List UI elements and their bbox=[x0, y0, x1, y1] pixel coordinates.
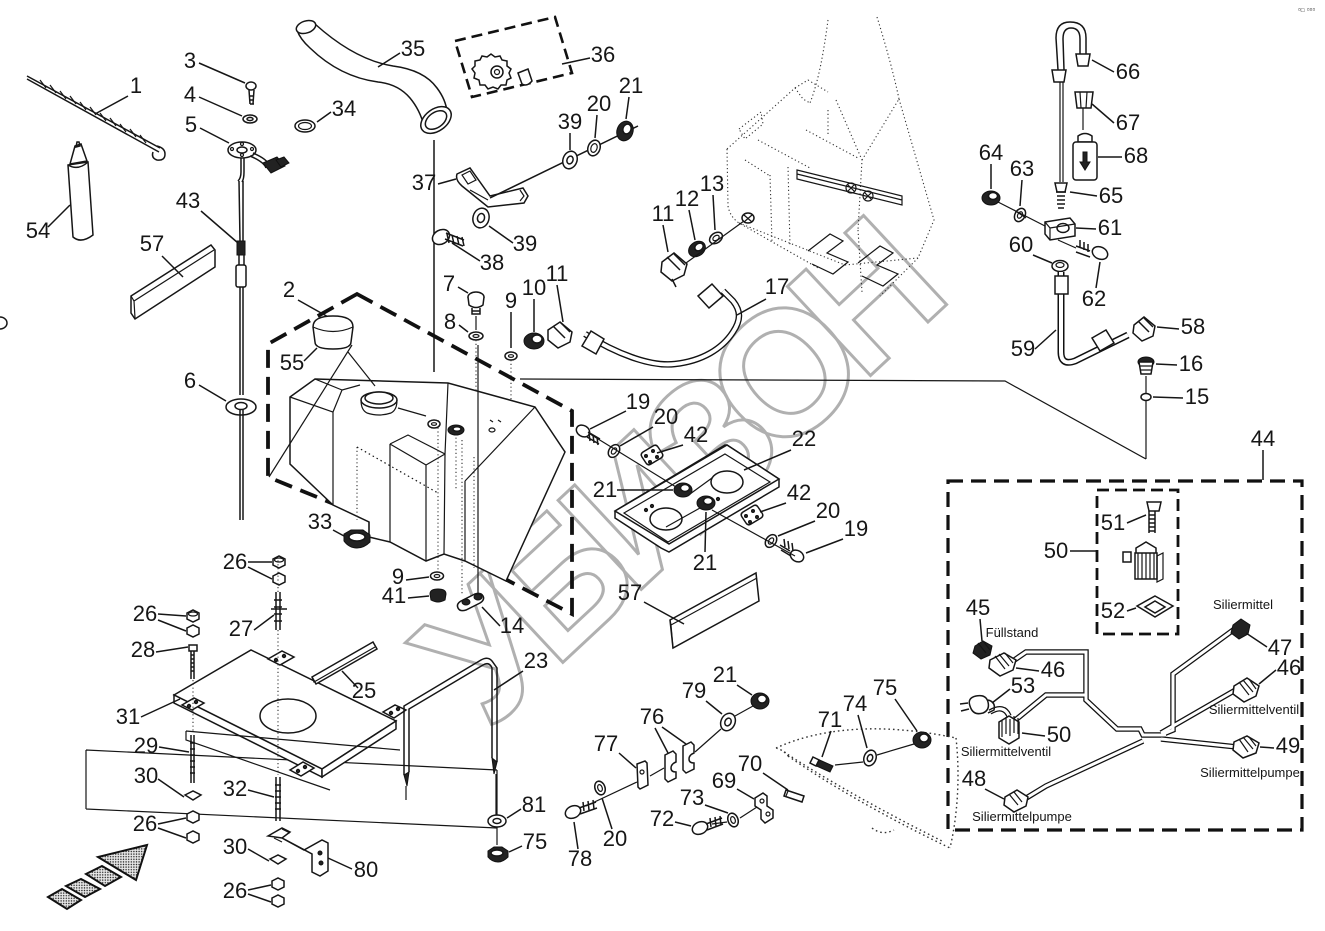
svg-text:50: 50 bbox=[1044, 538, 1068, 563]
svg-text:68: 68 bbox=[1124, 143, 1148, 168]
svg-text:15: 15 bbox=[1185, 384, 1209, 409]
label 50 inner bbox=[1044, 538, 1096, 563]
label 57 left bbox=[140, 231, 183, 277]
svg-text:62: 62 bbox=[1082, 286, 1106, 311]
bracket 37 bbox=[457, 168, 528, 207]
svg-text:19: 19 bbox=[844, 516, 868, 541]
drain fittings on tank top bbox=[428, 420, 501, 435]
label 62 bbox=[1082, 262, 1106, 311]
ring 20 top bbox=[586, 138, 603, 157]
label 20 top bbox=[587, 91, 611, 138]
dashed box 36 bbox=[455, 17, 572, 97]
pin 70 bbox=[784, 790, 804, 802]
svg-text:54: 54 bbox=[26, 218, 50, 243]
label 77 bbox=[594, 731, 636, 768]
label 7 bbox=[443, 271, 468, 296]
svg-text:17: 17 bbox=[765, 274, 789, 299]
svg-text:41: 41 bbox=[382, 583, 406, 608]
svg-text:57: 57 bbox=[618, 580, 642, 605]
machine body phantom outline bbox=[727, 17, 934, 296]
svg-text:8: 8 bbox=[444, 309, 456, 334]
washer 39 upper bbox=[560, 149, 579, 171]
square washer 52 bbox=[1137, 596, 1173, 617]
bolt 78 bbox=[563, 800, 597, 821]
svg-text:52: 52 bbox=[1101, 598, 1125, 623]
svg-text:48: 48 bbox=[962, 766, 986, 791]
svg-text:80: 80 bbox=[354, 857, 378, 882]
svg-text:72: 72 bbox=[650, 806, 674, 831]
label 17 bbox=[737, 274, 789, 315]
nut 21 top bbox=[614, 119, 636, 143]
svg-text:▫□ ▫▫▫: ▫□ ▫▫▫ bbox=[1298, 5, 1315, 14]
label 57 right bbox=[618, 580, 684, 624]
washer 20 bottom bbox=[593, 780, 607, 797]
rod 43 sensor bbox=[236, 158, 246, 395]
label 38 bbox=[452, 243, 504, 275]
label 49 bbox=[1260, 733, 1300, 758]
part 54 cartridge bbox=[68, 142, 93, 240]
label 74 bbox=[843, 691, 867, 748]
assembly line 21-19 lower bbox=[666, 508, 795, 556]
label 33 bbox=[308, 509, 344, 536]
label 23 bbox=[494, 648, 548, 690]
label 41 bbox=[382, 583, 429, 608]
washer 63 bbox=[1012, 206, 1028, 223]
svg-text:5: 5 bbox=[185, 112, 197, 137]
svg-text:46: 46 bbox=[1277, 655, 1301, 680]
label 46 right bbox=[1259, 655, 1301, 684]
connector 46 left bbox=[989, 653, 1016, 676]
label 42 lower bbox=[760, 480, 811, 512]
label 73 bbox=[680, 785, 728, 813]
assembly line 72-70 bbox=[712, 807, 757, 824]
svg-text:64: 64 bbox=[979, 140, 1003, 165]
svg-text:1: 1 bbox=[130, 73, 142, 98]
label 46 left bbox=[1016, 657, 1065, 682]
bracket 61 bbox=[1045, 218, 1075, 240]
arrow symbol bbox=[48, 845, 147, 909]
elbow 11 left bbox=[548, 322, 572, 348]
connector 48 bbox=[1004, 790, 1028, 812]
svg-text:71: 71 bbox=[818, 707, 842, 732]
bolt 19 upper bbox=[574, 423, 600, 445]
plug 53 bbox=[960, 696, 994, 714]
label 75 frame bbox=[509, 829, 547, 854]
label 20 bottom bbox=[602, 798, 627, 851]
svg-text:Siliermittelventil: Siliermittelventil bbox=[961, 744, 1051, 759]
svg-text:Siliermittelpumpe: Siliermittelpumpe bbox=[972, 809, 1072, 824]
label 13 top bbox=[700, 171, 724, 230]
bolt 19 lower bbox=[780, 539, 806, 564]
label 1 bbox=[95, 73, 142, 114]
label 53 bbox=[992, 673, 1035, 703]
washer 8 bbox=[469, 332, 483, 425]
label 79 bbox=[682, 678, 722, 714]
label 36 bbox=[562, 42, 615, 67]
filler tube 35 bbox=[295, 18, 457, 139]
machine hole bbox=[742, 213, 754, 223]
bolt 7 bbox=[468, 292, 484, 330]
rod 23 bbox=[404, 658, 497, 815]
washer 79 bbox=[718, 711, 738, 733]
svg-text:61: 61 bbox=[1098, 215, 1122, 240]
dotted cover panel bbox=[776, 729, 958, 848]
svg-text:21: 21 bbox=[713, 662, 737, 687]
label 9 bottom bbox=[392, 564, 429, 589]
svg-text:38: 38 bbox=[480, 250, 504, 275]
svg-text:20: 20 bbox=[603, 826, 627, 851]
svg-text:43: 43 bbox=[176, 188, 200, 213]
label 81 bbox=[507, 792, 546, 818]
svg-text:4: 4 bbox=[184, 82, 196, 107]
inner dashed box 50-52 bbox=[1097, 490, 1178, 634]
svg-text:23: 23 bbox=[524, 648, 548, 673]
label 59 bbox=[1011, 330, 1056, 361]
label 14 bbox=[482, 607, 524, 638]
filter 68 bbox=[1073, 134, 1097, 181]
label 55 bbox=[280, 348, 317, 375]
label 78 bbox=[568, 822, 592, 871]
label 54 bbox=[26, 205, 70, 243]
tank filler neck bbox=[361, 392, 397, 415]
label 11 top bbox=[652, 201, 675, 252]
label 66 bbox=[1092, 59, 1140, 84]
washer 9 bottom bbox=[431, 572, 444, 580]
plate 42 upper bbox=[641, 445, 663, 465]
svg-text:22: 22 bbox=[792, 426, 816, 451]
center rod stack 26/27/32/30/26 bbox=[270, 556, 287, 907]
plate 57 right bbox=[670, 573, 759, 648]
fitting 10 bbox=[524, 333, 544, 349]
nut 75 frame bbox=[488, 847, 508, 862]
part 1 pull rod bbox=[27, 76, 165, 160]
svg-text:55: 55 bbox=[280, 350, 304, 375]
svg-text:30: 30 bbox=[223, 834, 247, 859]
washer 39 lower bbox=[471, 206, 492, 229]
label 4 bbox=[184, 82, 242, 116]
svg-text:66: 66 bbox=[1116, 59, 1140, 84]
assembly line 11-13 to machine bbox=[686, 221, 744, 263]
tank body bbox=[290, 345, 565, 594]
svg-text:42: 42 bbox=[787, 480, 811, 505]
washer 4 bbox=[243, 115, 257, 123]
page-edge ring bbox=[0, 317, 7, 329]
washer 20 upper bbox=[606, 442, 622, 459]
label 68 bbox=[1098, 143, 1148, 168]
svg-text:39: 39 bbox=[558, 109, 582, 134]
svg-text:44: 44 bbox=[1251, 426, 1275, 451]
svg-text:26: 26 bbox=[133, 811, 157, 836]
label 70 bbox=[738, 751, 788, 790]
cap nut 41 bbox=[430, 589, 446, 602]
nut 12 top bbox=[686, 238, 709, 260]
plate 42 lower bbox=[741, 505, 763, 525]
svg-text:21: 21 bbox=[693, 550, 717, 575]
label 63 bbox=[1010, 156, 1034, 206]
washer 15 bbox=[1141, 376, 1151, 459]
label 50 harness bbox=[1022, 722, 1071, 747]
cap 55 bbox=[269, 316, 375, 477]
svg-text:79: 79 bbox=[682, 678, 706, 703]
svg-text:34: 34 bbox=[332, 96, 356, 121]
label 42 upper bbox=[657, 422, 708, 453]
svg-text:67: 67 bbox=[1116, 110, 1140, 135]
svg-text:16: 16 bbox=[1179, 351, 1203, 376]
svg-text:7: 7 bbox=[443, 271, 455, 296]
label 8 bbox=[444, 309, 468, 334]
label 16 bbox=[1156, 351, 1203, 376]
plate 77 bbox=[637, 761, 648, 789]
connector 45 bbox=[973, 641, 992, 659]
label 39 upper bbox=[558, 109, 582, 150]
hose 59 bbox=[1055, 272, 1128, 362]
label 71 bbox=[818, 707, 842, 757]
bolt 51 bbox=[1147, 502, 1161, 533]
svg-text:28: 28 bbox=[131, 637, 155, 662]
labels 26/27/32/30/26 center bbox=[223, 549, 272, 579]
svg-text:39: 39 bbox=[513, 231, 537, 256]
label 21 top bbox=[619, 73, 643, 119]
svg-text:63: 63 bbox=[1010, 156, 1034, 181]
dashed box 2 (tank) bbox=[268, 294, 572, 614]
washer 73 bbox=[726, 812, 740, 829]
strip 25 bbox=[312, 642, 377, 684]
label 12 top bbox=[675, 186, 699, 240]
bolt 62 bbox=[1076, 240, 1110, 262]
pointer line to box 44 bbox=[520, 379, 1146, 459]
svg-text:74: 74 bbox=[843, 691, 867, 716]
label 43 bbox=[176, 188, 238, 243]
nut 60 bbox=[1052, 261, 1068, 272]
svg-text:14: 14 bbox=[500, 613, 524, 638]
elbow 11 top bbox=[661, 253, 687, 287]
svg-text:12: 12 bbox=[675, 186, 699, 211]
svg-text:26: 26 bbox=[223, 878, 247, 903]
svg-text:73: 73 bbox=[680, 785, 704, 810]
assembly line 61-62 bbox=[1058, 240, 1076, 248]
svg-text:20: 20 bbox=[816, 498, 840, 523]
washer 74 bbox=[862, 748, 879, 767]
svg-text:21: 21 bbox=[619, 73, 643, 98]
svg-text:25: 25 bbox=[352, 678, 376, 703]
machine bracket strip bbox=[797, 170, 902, 205]
watermark bbox=[379, 187, 972, 759]
label 48 bbox=[962, 766, 1004, 799]
label 44 bbox=[1251, 426, 1275, 480]
svg-text:75: 75 bbox=[873, 675, 897, 700]
connector 47 bbox=[1231, 619, 1250, 639]
washer 13 top bbox=[707, 230, 724, 246]
ring 34 bbox=[295, 120, 315, 132]
label 21 lower bbox=[693, 512, 717, 575]
svg-text:Siliermittelventil: Siliermittelventil bbox=[1209, 702, 1299, 717]
label 75 bottom bbox=[873, 675, 917, 731]
hose 17 bbox=[582, 284, 739, 364]
screw 65 bbox=[1055, 183, 1067, 208]
svg-text:65: 65 bbox=[1099, 183, 1123, 208]
label 80 bbox=[328, 857, 378, 882]
screw 3 bbox=[246, 82, 256, 104]
svg-text:11: 11 bbox=[546, 261, 569, 286]
svg-text:2: 2 bbox=[283, 277, 295, 302]
svg-text:26: 26 bbox=[223, 549, 247, 574]
svg-text:75: 75 bbox=[523, 829, 547, 854]
svg-text:11: 11 bbox=[652, 201, 675, 226]
label 11 left bbox=[546, 261, 569, 322]
U-tube 66 bbox=[1052, 22, 1090, 182]
washer 20 lower bbox=[763, 532, 779, 549]
fitting 16 bbox=[1138, 357, 1154, 374]
nut 21 mid-left bbox=[674, 483, 692, 497]
plate 14 bbox=[457, 593, 483, 610]
panel behind frame bbox=[86, 750, 497, 828]
clamp halves 76 bbox=[665, 742, 694, 782]
nut 21 bottom bbox=[751, 693, 769, 709]
bolt 38 bbox=[430, 226, 464, 247]
label 19 upper bbox=[590, 389, 650, 429]
svg-text:69: 69 bbox=[712, 768, 736, 793]
nut 21 lower bbox=[697, 496, 715, 510]
pin 71 bbox=[810, 757, 833, 772]
svg-text:53: 53 bbox=[1011, 673, 1035, 698]
washer 81 bbox=[488, 815, 506, 845]
svg-text:81: 81 bbox=[522, 792, 546, 817]
washer 9 mid bbox=[505, 352, 517, 430]
svg-text:21: 21 bbox=[593, 477, 617, 502]
svg-text:20: 20 bbox=[654, 404, 678, 429]
svg-text:3: 3 bbox=[184, 48, 196, 73]
label 76 bbox=[640, 704, 686, 753]
flange 5 bbox=[228, 142, 256, 158]
assembly line 71-75 bbox=[835, 744, 914, 765]
svg-text:10: 10 bbox=[522, 275, 546, 300]
connector 49 bbox=[1233, 736, 1259, 758]
dashed box 44 bbox=[948, 481, 1302, 830]
label 20 lower bbox=[778, 498, 840, 536]
svg-text:35: 35 bbox=[401, 36, 425, 61]
elbow 58 bbox=[1133, 317, 1155, 341]
leader line 35 to tank bbox=[433, 140, 435, 372]
bolt 72 bbox=[690, 816, 723, 837]
svg-text:Siliermittel: Siliermittel bbox=[1213, 597, 1273, 612]
harness wires bbox=[990, 628, 1239, 800]
svg-text:13: 13 bbox=[700, 171, 724, 196]
svg-text:36: 36 bbox=[591, 42, 615, 67]
cable and connector on 5 bbox=[250, 153, 289, 173]
bracket 69 bbox=[755, 793, 773, 823]
nut 67 bbox=[1075, 92, 1093, 130]
solenoid 50 harness bbox=[999, 716, 1019, 744]
label 19 lower bbox=[806, 516, 868, 553]
label 21 mid-left bbox=[593, 477, 673, 502]
label 3 bbox=[184, 48, 245, 83]
svg-text:59: 59 bbox=[1011, 336, 1035, 361]
label 31 bbox=[116, 699, 180, 729]
nut 64 bbox=[982, 191, 1000, 205]
svg-text:57: 57 bbox=[140, 231, 164, 256]
svg-text:6: 6 bbox=[184, 368, 196, 393]
label 58 bbox=[1157, 314, 1205, 339]
machine sheet flaps bbox=[808, 234, 898, 286]
label 65 bbox=[1070, 183, 1123, 208]
label 34 bbox=[317, 96, 356, 122]
svg-text:49: 49 bbox=[1276, 733, 1300, 758]
label 72 bbox=[650, 806, 691, 831]
label 47 bbox=[1246, 633, 1292, 660]
svg-text:Siliermittelpumpe: Siliermittelpumpe bbox=[1200, 765, 1300, 780]
svg-text:51: 51 bbox=[1101, 510, 1125, 535]
bracket 80 bbox=[268, 828, 328, 876]
assembly line 78-21 bbox=[586, 706, 753, 806]
assembly line 19-21 upper bbox=[590, 434, 712, 494]
svg-text:42: 42 bbox=[684, 422, 708, 447]
svg-text:60: 60 bbox=[1009, 232, 1033, 257]
svg-text:27: 27 bbox=[229, 616, 253, 641]
frame plate 31 bbox=[174, 650, 406, 790]
svg-text:70: 70 bbox=[738, 751, 762, 776]
label 10 bbox=[522, 275, 546, 332]
label 37 bbox=[412, 170, 456, 195]
svg-text:9: 9 bbox=[505, 288, 517, 313]
connector 46 right bbox=[1233, 678, 1259, 702]
svg-text:46: 46 bbox=[1041, 657, 1065, 682]
nut 75 bottom bbox=[913, 732, 931, 748]
svg-text:37: 37 bbox=[412, 170, 436, 195]
label 15 bbox=[1153, 384, 1209, 409]
plate 57 left bbox=[131, 245, 215, 319]
nut 33 bbox=[344, 530, 370, 548]
label 21 bottom bbox=[713, 662, 752, 695]
left rod stack 26/28/29/30/26 bbox=[185, 610, 201, 843]
tray 22 bbox=[615, 445, 779, 552]
label 45 bbox=[966, 595, 990, 641]
svg-text:20: 20 bbox=[587, 91, 611, 116]
svg-text:78: 78 bbox=[568, 846, 592, 871]
assembly line 64-61 bbox=[998, 202, 1045, 226]
label 5 bbox=[185, 112, 229, 143]
svg-text:76: 76 bbox=[640, 704, 664, 729]
label 52 bbox=[1101, 598, 1136, 623]
svg-text:29: 29 bbox=[134, 733, 158, 758]
label 51 bbox=[1101, 510, 1146, 535]
solenoid 50 inner bbox=[1123, 542, 1163, 582]
svg-text:26: 26 bbox=[133, 601, 157, 626]
label 61 bbox=[1076, 215, 1122, 240]
label 25 bbox=[342, 671, 376, 703]
label 64 bbox=[979, 140, 1003, 189]
svg-text:58: 58 bbox=[1181, 314, 1205, 339]
label 20 upper bbox=[620, 404, 678, 446]
svg-text:19: 19 bbox=[626, 389, 650, 414]
label 9 mid bbox=[505, 288, 517, 348]
svg-text:45: 45 bbox=[966, 595, 990, 620]
labels 26/28/29/30/26 left bbox=[133, 601, 186, 631]
svg-text:33: 33 bbox=[308, 509, 332, 534]
svg-text:32: 32 bbox=[223, 776, 247, 801]
svg-text:31: 31 bbox=[116, 704, 140, 729]
svg-text:77: 77 bbox=[594, 731, 618, 756]
label 2 bbox=[283, 277, 330, 318]
label 67 bbox=[1092, 104, 1140, 135]
label 35 bbox=[378, 36, 425, 67]
svg-text:Füllstand: Füllstand bbox=[986, 625, 1039, 640]
flange 6 bbox=[226, 399, 256, 520]
label 22 bbox=[744, 426, 816, 470]
label 69 bbox=[712, 768, 754, 799]
label 6 bbox=[184, 368, 226, 401]
label 39 lower bbox=[489, 226, 537, 256]
assembly line 37 to 21 bbox=[490, 126, 638, 198]
